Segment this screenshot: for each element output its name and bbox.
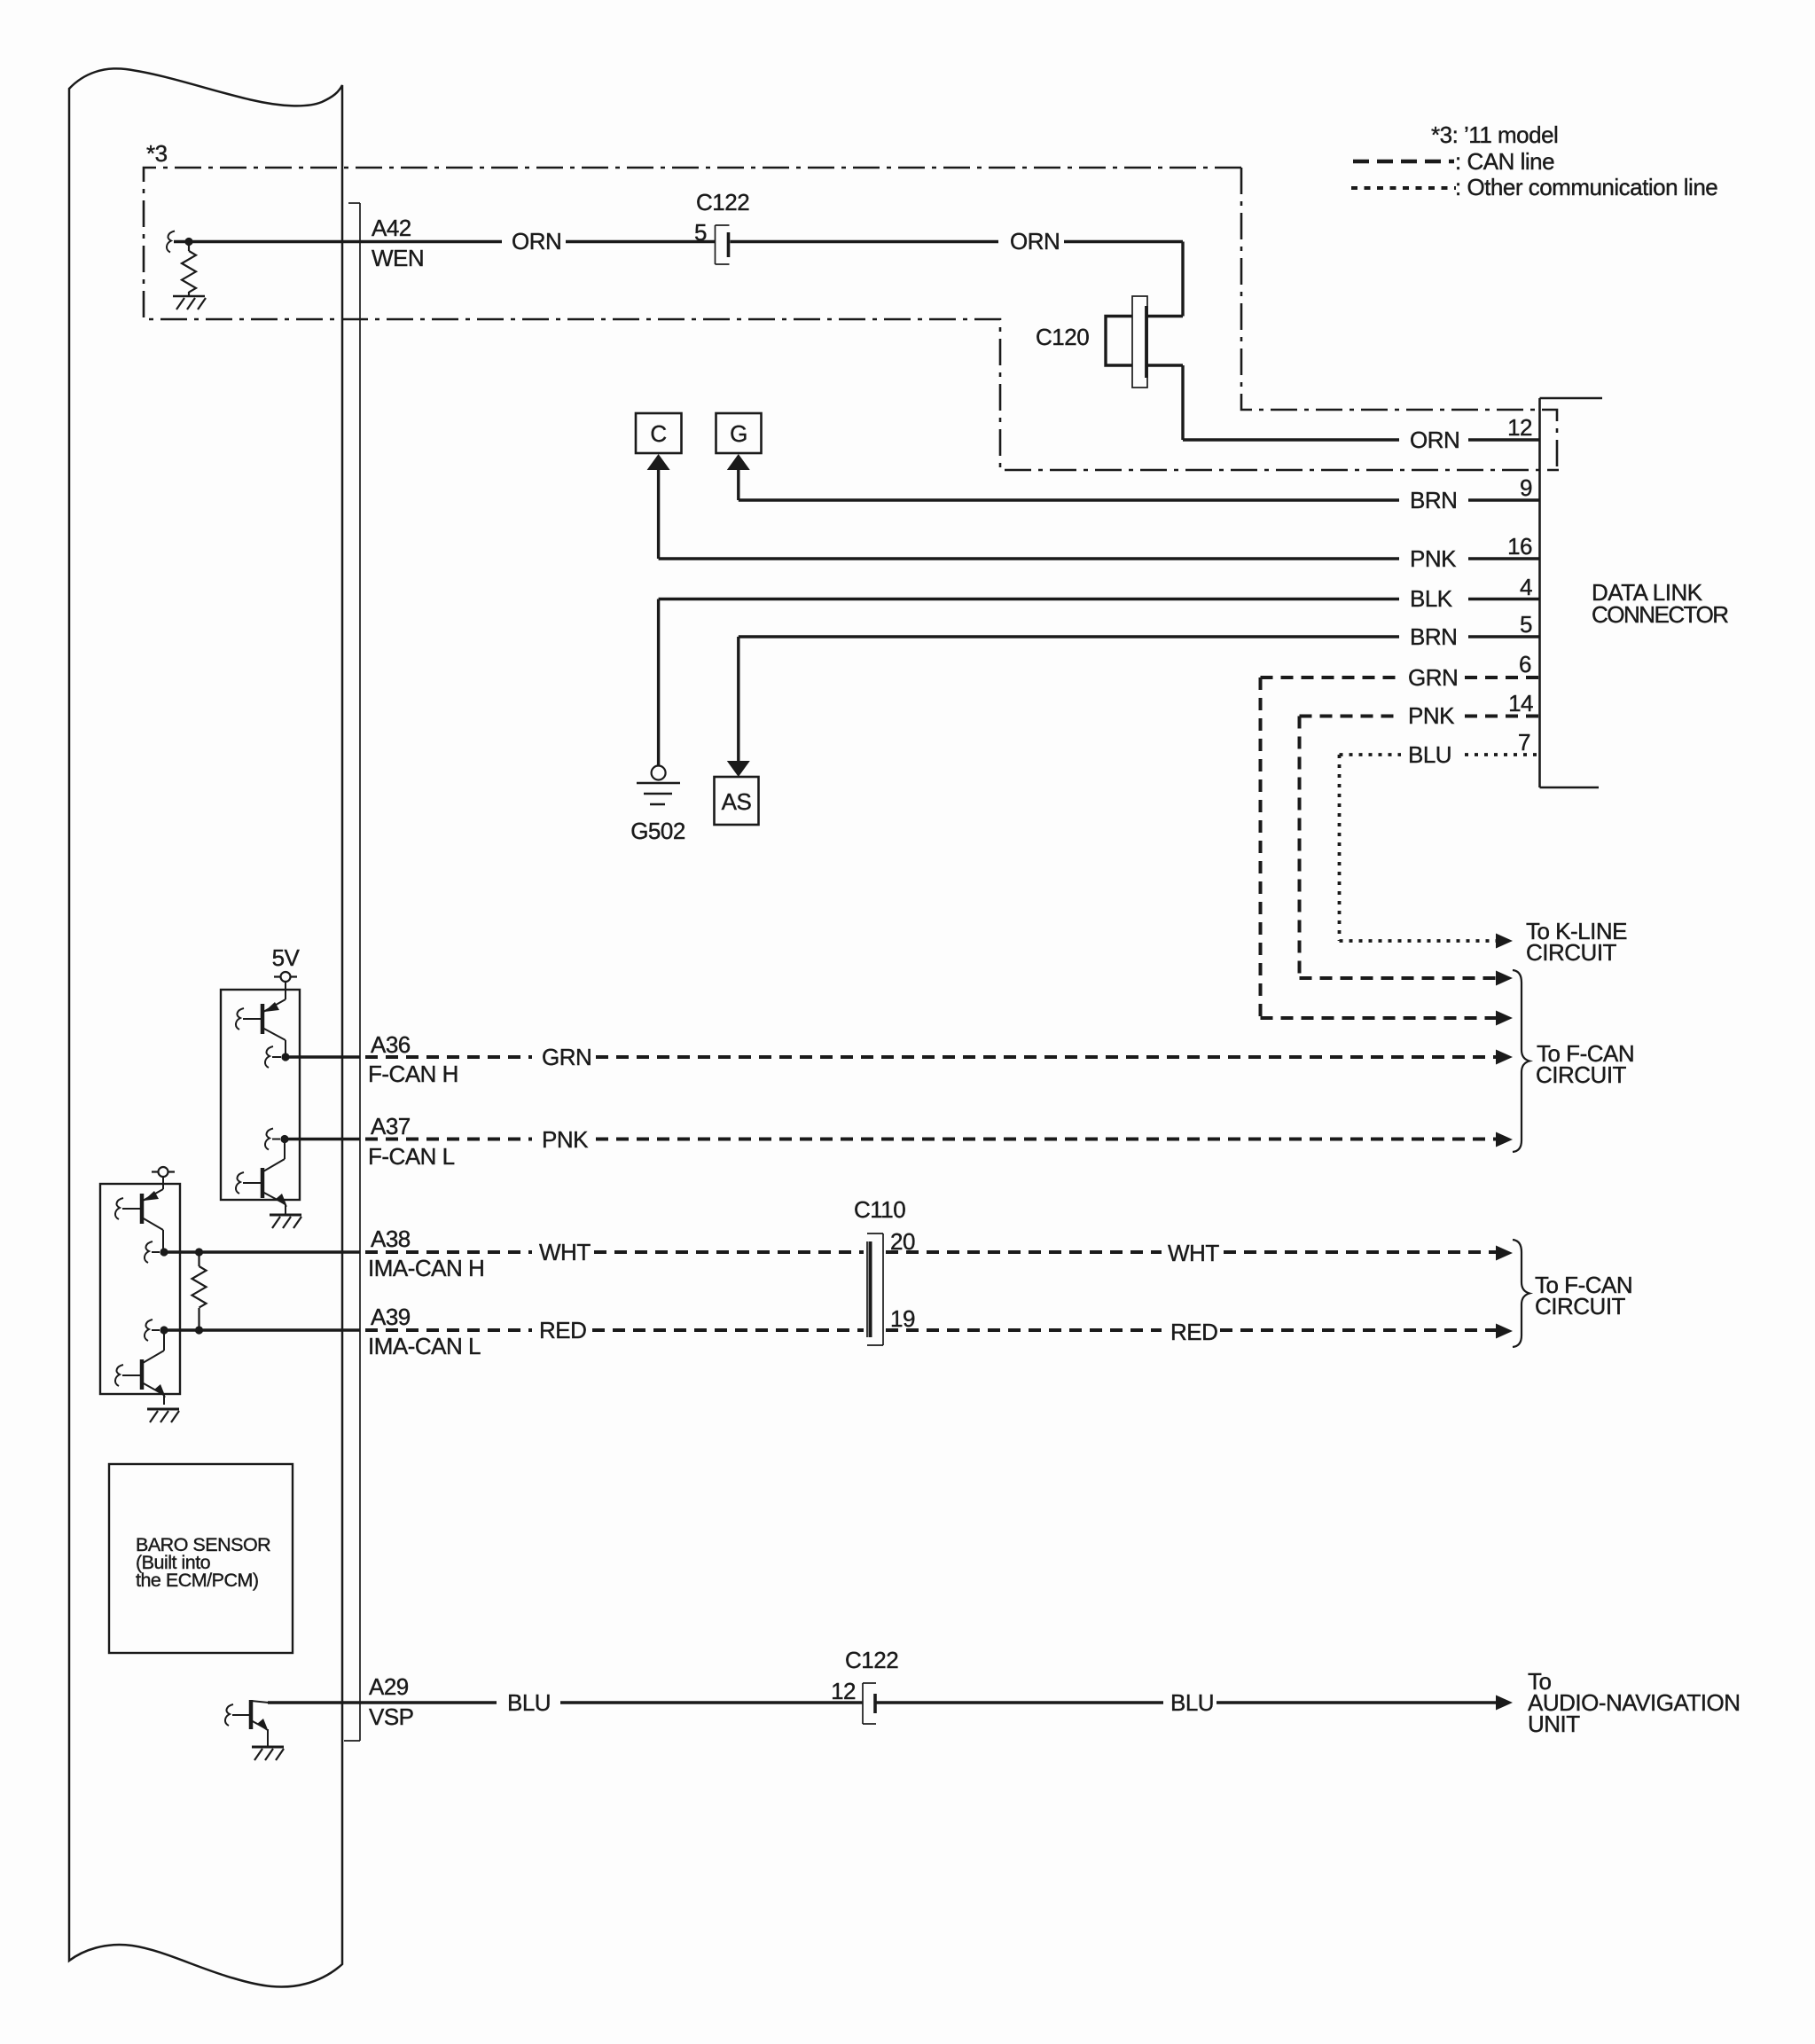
svg-text:RED: RED xyxy=(539,1317,586,1343)
svg-text:BRN: BRN xyxy=(1410,623,1457,650)
svg-text:*3: ’11 model: *3: ’11 model xyxy=(1431,121,1558,148)
svg-text:4: 4 xyxy=(1520,574,1532,600)
svg-text:GRN: GRN xyxy=(542,1044,591,1070)
svg-text:PNK: PNK xyxy=(542,1126,589,1153)
svg-text:ORN: ORN xyxy=(1010,228,1060,255)
svg-text:9: 9 xyxy=(1520,474,1532,501)
svg-text:BRN: BRN xyxy=(1410,487,1457,513)
svg-text:5: 5 xyxy=(694,219,707,246)
svg-text:14: 14 xyxy=(1508,690,1533,717)
svg-text:G: G xyxy=(730,420,747,447)
svg-text:C122: C122 xyxy=(845,1647,898,1673)
svg-text:A37: A37 xyxy=(371,1113,411,1139)
svg-text:A36: A36 xyxy=(371,1031,411,1058)
svg-text:12: 12 xyxy=(831,1678,856,1704)
svg-text:CIRCUIT: CIRCUIT xyxy=(1526,939,1617,966)
svg-text:IMA-CAN H: IMA-CAN H xyxy=(368,1255,484,1281)
svg-text:IMA-CAN L: IMA-CAN L xyxy=(368,1333,481,1359)
svg-text:UNIT: UNIT xyxy=(1528,1711,1580,1737)
svg-text:BLU: BLU xyxy=(507,1689,551,1716)
svg-text:VSP: VSP xyxy=(369,1703,414,1730)
svg-text:A39: A39 xyxy=(371,1304,411,1330)
svg-text:19: 19 xyxy=(890,1305,915,1332)
svg-text:A29: A29 xyxy=(369,1673,409,1700)
svg-text:PNK: PNK xyxy=(1410,545,1457,572)
svg-text:WEN: WEN xyxy=(372,245,424,271)
svg-text:A38: A38 xyxy=(371,1226,411,1252)
svg-text:PNK: PNK xyxy=(1408,702,1455,729)
svg-text:5V: 5V xyxy=(272,944,301,971)
svg-text:BLK: BLK xyxy=(1410,585,1453,612)
svg-text:7: 7 xyxy=(1518,729,1530,756)
svg-text:20: 20 xyxy=(890,1228,915,1255)
svg-text:CIRCUIT: CIRCUIT xyxy=(1536,1061,1627,1088)
svg-text:16: 16 xyxy=(1507,533,1532,560)
svg-text:GRN: GRN xyxy=(1408,664,1458,691)
svg-text:12: 12 xyxy=(1507,414,1532,441)
svg-text:6: 6 xyxy=(1519,651,1531,677)
svg-text:ORN: ORN xyxy=(512,228,561,255)
svg-text:F-CAN H: F-CAN H xyxy=(368,1061,458,1087)
svg-text:C120: C120 xyxy=(1036,324,1089,350)
svg-text:C110: C110 xyxy=(854,1196,905,1223)
svg-text:RED: RED xyxy=(1170,1319,1217,1345)
svg-text:AS: AS xyxy=(722,788,752,815)
svg-text:WHT: WHT xyxy=(1168,1240,1219,1266)
svg-text:C122: C122 xyxy=(696,189,749,215)
svg-text:CIRCUIT: CIRCUIT xyxy=(1535,1293,1626,1320)
svg-text:BLU: BLU xyxy=(1170,1689,1214,1716)
svg-text:A42: A42 xyxy=(372,215,411,241)
svg-text:WHT: WHT xyxy=(539,1239,591,1265)
svg-text:F-CAN L: F-CAN L xyxy=(368,1143,455,1170)
svg-text:ORN: ORN xyxy=(1410,427,1459,453)
svg-text:: Other communication line: : Other communication line xyxy=(1455,174,1717,200)
svg-text:G502: G502 xyxy=(630,818,685,844)
svg-text:CONNECTOR: CONNECTOR xyxy=(1592,601,1728,628)
svg-text:the ECM/PCM): the ECM/PCM) xyxy=(136,1570,259,1591)
svg-text:C: C xyxy=(650,420,666,447)
svg-text:: CAN line: : CAN line xyxy=(1455,148,1554,175)
svg-text:*3: *3 xyxy=(146,140,168,167)
svg-text:5: 5 xyxy=(1520,611,1532,638)
svg-text:BLU: BLU xyxy=(1408,741,1451,768)
